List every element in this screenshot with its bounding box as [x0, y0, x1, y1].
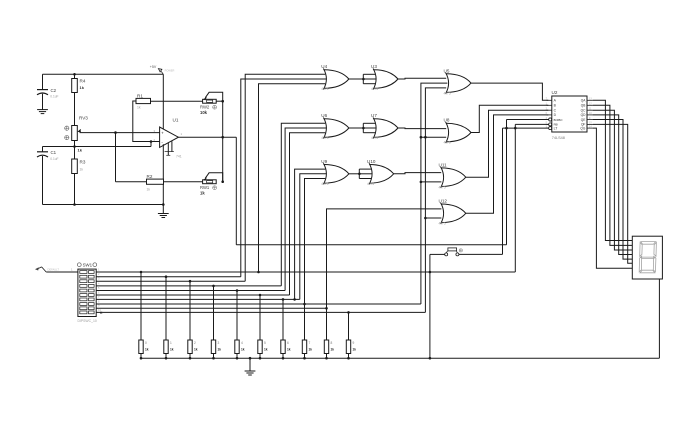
svg-text:4075: 4075	[371, 87, 378, 91]
wire bus row 5	[96, 290, 285, 292]
resistor R3	[72, 141, 86, 205]
resistor 4	[235, 291, 245, 359]
node resistor 5 on rail	[259, 357, 262, 360]
svg-text:8: 8	[331, 341, 333, 345]
ground (analog)	[158, 205, 169, 218]
node resistor tap 4	[236, 289, 239, 292]
wire U4 top feed	[245, 74, 325, 281]
or-gate U10	[367, 159, 394, 186]
svg-text:4075: 4075	[439, 185, 446, 189]
decoder U2	[546, 90, 593, 140]
wire +5V rail	[43, 73, 164, 75]
wire U12 bottom feed	[425, 217, 441, 219]
or-gate U11	[439, 162, 466, 189]
ground (C2)	[37, 110, 48, 114]
wire button left to rail	[430, 253, 445, 255]
node V- rail	[162, 203, 165, 206]
svg-text:4075: 4075	[444, 141, 451, 145]
wire minus to pin2	[151, 141, 160, 143]
svg-text:R2: R2	[147, 174, 153, 179]
or-gate U9	[321, 159, 349, 186]
wire U4 bottom feed	[259, 84, 326, 272]
svg-text:1k: 1k	[137, 106, 141, 110]
svg-text:4075: 4075	[371, 136, 378, 140]
wire C1 top to node	[43, 146, 152, 148]
trimmer RW2	[200, 92, 223, 115]
trimmer RW1	[200, 173, 223, 196]
svg-text:4075: 4075	[367, 182, 374, 186]
input terminal arrow	[35, 267, 59, 272]
power +5V terminal	[150, 65, 175, 74]
wire U9 bottom feed	[305, 179, 326, 305]
resistor R1	[136, 94, 151, 110]
or-gate U7	[371, 113, 398, 140]
svg-text:4075: 4075	[321, 136, 328, 140]
resistor 2	[188, 281, 198, 358]
capacitor C2	[37, 74, 59, 109]
wire U4 output	[349, 78, 363, 80]
wire U5 output to pin A	[471, 83, 548, 100]
svg-text:POWER: POWER	[165, 69, 175, 73]
wire U6 top feed	[281, 123, 325, 286]
wire display common	[658, 279, 660, 358]
node resistor tap 6	[282, 298, 285, 301]
wire bus row 10	[96, 311, 425, 313]
svg-text:741: 741	[176, 155, 182, 159]
svg-text:U10: U10	[367, 159, 376, 164]
or-gate U5	[444, 68, 472, 95]
node resistor tap 8	[325, 307, 328, 310]
ground rail	[141, 357, 659, 359]
node resistor 1 on rail	[165, 357, 168, 360]
wire U8 output to pin B	[471, 105, 548, 132]
wire QA to display	[593, 100, 633, 240]
svg-text:U2: U2	[552, 90, 558, 95]
resistor 9	[346, 312, 356, 358]
ground (rail)	[245, 358, 256, 375]
resistor R4	[72, 74, 86, 125]
wire RW2/RW1 vertical	[222, 101, 224, 182]
svg-text:0.1uF: 0.1uF	[50, 95, 58, 99]
wire terminal to SW1	[46, 271, 78, 273]
node resistor 7 on rail	[303, 357, 306, 360]
svg-text:U6: U6	[321, 113, 327, 118]
wire V- to ground rail	[162, 144, 164, 204]
resistor R2	[147, 174, 164, 192]
svg-text:QG: QG	[580, 126, 585, 130]
node row1 button junction	[429, 271, 432, 274]
wire U3 input bracket	[362, 78, 365, 81]
node resistor 9 on rail	[347, 357, 350, 360]
svg-text:U11: U11	[439, 162, 448, 167]
svg-text:1k: 1k	[218, 347, 222, 351]
svg-text:RV3: RV3	[79, 116, 88, 121]
wire R2 right to RW1	[164, 181, 203, 183]
svg-text:3: 3	[218, 341, 220, 345]
svg-text:2: 2	[194, 341, 196, 345]
or-gate U8	[444, 118, 472, 145]
wire bus row 2	[96, 276, 241, 278]
node R4-rail	[73, 73, 76, 76]
node button-rail	[429, 357, 432, 360]
svg-text:1k: 1k	[200, 191, 205, 196]
wire QG to display	[593, 128, 633, 268]
svg-text:1k: 1k	[353, 347, 357, 351]
pin stubs right	[587, 99, 593, 101]
node resistor 2 on rail	[189, 357, 192, 360]
or-gate U3	[371, 64, 398, 91]
wire QF to display	[593, 124, 633, 263]
wire U9 top feed	[295, 169, 326, 299]
or-gate U4	[321, 64, 349, 91]
wire U4 mid feed	[241, 79, 327, 277]
wire R1 right to RW2	[151, 100, 203, 102]
resistor 1	[164, 277, 174, 359]
wire U10 to U11	[394, 173, 442, 174]
svg-text:4075: 4075	[439, 222, 446, 226]
svg-text:4075: 4075	[321, 87, 328, 91]
wire U6 mid feed	[285, 128, 327, 291]
svg-text:C1: C1	[51, 150, 57, 155]
svg-text:DEFAULT: DEFAULT	[48, 268, 60, 272]
wire bus row 7	[96, 298, 300, 300]
svg-text:6: 6	[287, 341, 289, 345]
push button	[445, 248, 463, 256]
svg-text:1k: 1k	[147, 188, 151, 192]
node resistor 0 on rail	[140, 357, 143, 360]
svg-text:0.1uF: 0.1uF	[50, 157, 58, 161]
svg-text:R3: R3	[80, 160, 86, 165]
wire U5 bottom feed	[425, 88, 446, 313]
resistor 3	[211, 286, 221, 358]
wire bus row 6	[96, 294, 289, 296]
resistor 6	[281, 299, 291, 358]
svg-text:1k: 1k	[145, 347, 149, 351]
svg-text:DIPSWC_10: DIPSWC_10	[78, 319, 97, 323]
wire RV3 wiper	[80, 132, 160, 134]
svg-text:4075: 4075	[321, 182, 328, 186]
wire QB to display	[593, 105, 633, 245]
node wiper split	[114, 131, 117, 134]
svg-text:5: 5	[264, 341, 266, 345]
wire U12 top feed vertical	[327, 209, 442, 308]
wire QD to display	[593, 115, 633, 255]
node resistor tap 2	[189, 280, 192, 283]
or-gate U6	[321, 113, 349, 140]
wire U7 to U8	[398, 127, 446, 130]
wire wiper to R2	[115, 133, 117, 182]
wire U9 output	[349, 173, 359, 175]
svg-text:1k: 1k	[309, 347, 313, 351]
svg-text:U8: U8	[444, 118, 450, 123]
node minus input	[150, 140, 153, 143]
svg-text:QE: QE	[581, 118, 586, 122]
potentiometer RV3	[65, 116, 89, 153]
svg-text:RW1: RW1	[200, 185, 210, 190]
svg-text:1k: 1k	[241, 347, 245, 351]
wire bus row 8	[96, 303, 421, 305]
wire U11 bottom feed	[421, 181, 442, 183]
node RV3/R3/C1	[73, 145, 76, 148]
svg-text:1k: 1k	[80, 85, 85, 90]
wire button right to LT	[459, 253, 503, 255]
wire op-amp output	[178, 136, 236, 138]
svg-text:7: 7	[309, 341, 311, 345]
wire row1 to RBI	[514, 124, 516, 272]
wire BI vertical	[506, 120, 508, 245]
svg-text:QD: QD	[581, 113, 586, 117]
svg-text:RW2: RW2	[200, 105, 210, 110]
svg-text:SW1: SW1	[83, 263, 93, 268]
wire output to BI/RBO	[236, 244, 506, 246]
svg-text:U7: U7	[371, 113, 377, 118]
node resistor tap 3	[212, 285, 215, 288]
wire bus row 1	[96, 271, 515, 273]
wire U3 to U5	[398, 77, 446, 80]
wire U6 output	[349, 127, 363, 129]
resistor 7	[302, 304, 312, 358]
node resistor tap 7	[303, 303, 306, 306]
wire node up to minus	[150, 142, 152, 147]
ground rail (analog)	[43, 204, 164, 206]
wire bus row 9	[96, 307, 326, 309]
wire RW2 right	[216, 100, 223, 102]
wire QC to display	[593, 110, 633, 250]
svg-text:1k: 1k	[264, 347, 268, 351]
svg-text:QC: QC	[581, 109, 586, 113]
wire U7 input bracket	[362, 127, 365, 130]
wire V+ drop	[162, 74, 164, 130]
svg-text:1: 1	[170, 341, 172, 345]
svg-text:LT: LT	[554, 126, 558, 130]
svg-text:1k: 1k	[287, 347, 291, 351]
svg-text:1k: 1k	[194, 347, 198, 351]
wire bus row 3	[96, 280, 245, 282]
svg-text:U12: U12	[439, 199, 448, 204]
svg-text:10k: 10k	[200, 110, 208, 115]
wire R1 left to minus input	[133, 101, 151, 142]
wire output down	[235, 137, 237, 245]
wire U10 input bracket	[358, 173, 361, 176]
wire U9 mid feed	[300, 174, 327, 300]
resistor 8	[324, 308, 334, 358]
svg-text:4: 4	[241, 341, 243, 345]
wire U12 output to pin D	[466, 115, 549, 213]
svg-text:+5V: +5V	[150, 65, 157, 69]
capacitor C1	[37, 147, 59, 205]
wire U8 bottom feed	[421, 136, 446, 138]
op-amp U1	[153, 118, 182, 159]
svg-text:R1: R1	[137, 94, 143, 99]
node ground tap	[249, 357, 252, 360]
resistor 0	[139, 272, 149, 358]
node R3 bottom	[73, 203, 76, 206]
wire bus row 4	[96, 285, 281, 287]
pin stubs left	[547, 99, 552, 101]
svg-text:U3: U3	[371, 64, 377, 69]
or-gate U12	[439, 199, 466, 226]
svg-text:9: 9	[353, 341, 355, 345]
svg-text:U9: U9	[321, 159, 327, 164]
resistor 5	[258, 295, 268, 358]
svg-text:4075: 4075	[444, 91, 451, 95]
wire QE to display	[593, 120, 633, 260]
node resistor 8 on rail	[325, 357, 328, 360]
svg-text:1k: 1k	[170, 347, 174, 351]
svg-text:1k: 1k	[331, 347, 335, 351]
svg-text:QB: QB	[581, 104, 586, 108]
node resistor 6 on rail	[282, 357, 285, 360]
switch SW1	[77, 263, 103, 323]
node resistor tap 9	[347, 311, 350, 314]
wire U5 mid feed	[421, 83, 448, 304]
svg-text:U1: U1	[173, 118, 179, 123]
wire U6 bottom feed	[290, 133, 326, 295]
svg-text:74LS48: 74LS48	[552, 136, 565, 140]
node resistor tap 5	[259, 294, 262, 297]
svg-text:R4: R4	[80, 79, 86, 84]
svg-text:U5: U5	[444, 68, 450, 73]
node resistor tap 1	[165, 275, 168, 278]
svg-text:C2: C2	[51, 88, 57, 93]
node resistor 3 on rail	[212, 357, 215, 360]
svg-text:1k: 1k	[80, 168, 84, 172]
node output	[221, 136, 224, 139]
svg-text:1k: 1k	[78, 148, 83, 153]
svg-text:0: 0	[145, 341, 147, 345]
wire U11 output to pin C	[466, 110, 549, 177]
svg-text:BI/RBO: BI/RBO	[554, 118, 563, 122]
node resistor 4 on rail	[236, 357, 239, 360]
svg-text:U4: U4	[321, 64, 327, 69]
7-segment display	[632, 236, 662, 279]
node resistor tap 0	[140, 271, 143, 274]
